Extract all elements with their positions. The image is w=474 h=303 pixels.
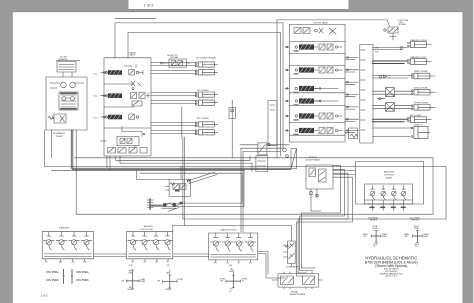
svg-text:SWING: SWING	[363, 234, 369, 236]
svg-text:TILT: TILT	[237, 263, 240, 265]
svg-text:T1out: T1out	[93, 73, 98, 76]
svg-text:LIFT: LIFT	[166, 273, 169, 275]
svg-text:2 of 2: 2 of 2	[41, 293, 49, 297]
svg-text:SELECTOR VALVE: SELECTOR VALVE	[290, 293, 306, 296]
svg-text:T1out: T1out	[93, 117, 98, 120]
svg-text:CONTROL VALVE: CONTROL VALVE	[313, 22, 329, 25]
svg-text:DOWN: DOWN	[373, 228, 378, 230]
svg-text:LOWER: LOWER	[165, 289, 172, 291]
svg-text:LOADER JOYSTICK: LOADER JOYSTICK	[220, 229, 237, 232]
svg-text:BKT: BKT	[129, 287, 132, 289]
svg-text:SWING: SWING	[404, 234, 410, 236]
svg-text:LIFT: LIFT	[167, 262, 170, 264]
svg-text:(Sheet 2 of 2): (Sheet 2 of 2)	[385, 275, 397, 278]
svg-text:JOYSTICK: JOYSTICK	[384, 175, 395, 177]
svg-text:UP: UP	[374, 246, 376, 248]
svg-text:PUMP: PUMP	[56, 136, 63, 138]
svg-text:BKT CYLINDER: BKT CYLINDER	[410, 115, 422, 117]
svg-text:TNK: TNK	[45, 262, 48, 264]
svg-text:BKT: BKT	[364, 236, 367, 238]
svg-text:BKT: BKT	[129, 270, 132, 272]
svg-text:(C8): (C8)	[167, 265, 171, 267]
svg-text:STAB/DRIVE: STAB/DRIVE	[59, 226, 70, 229]
svg-text:BKT CYLINDER: BKT CYLINDER	[197, 90, 209, 92]
svg-text:DOWN: DOWN	[229, 271, 235, 273]
svg-text:BOOM: BOOM	[414, 226, 419, 228]
svg-text:BOOM: BOOM	[220, 279, 226, 281]
svg-text:LOCKOUT VALVE: LOCKOUT VALVE	[305, 159, 320, 162]
svg-text:BOOM: BOOM	[242, 279, 248, 281]
svg-text:SWING CYL: SWING CYL	[414, 124, 423, 126]
svg-text:DIPPER CYLINDER: DIPPER CYLINDER	[414, 103, 429, 105]
svg-text:DRV PWRb: DRV PWRb	[77, 280, 90, 282]
svg-text:DUMP VALVE: DUMP VALVE	[287, 265, 299, 268]
svg-text:LIFT: LIFT	[144, 262, 147, 264]
svg-text:BOOM: BOOM	[373, 244, 378, 246]
svg-text:BKT: BKT	[156, 262, 159, 264]
svg-text:LIFT: LIFT	[214, 263, 217, 265]
svg-text:SWING CYLINDER: SWING CYLINDER	[414, 71, 428, 73]
svg-text:BOOM CYLINDER: BOOM CYLINDER	[414, 87, 428, 89]
svg-text:B/L CONTROL: B/L CONTROL	[368, 218, 378, 220]
svg-text:BKT: BKT	[405, 236, 408, 238]
svg-text:BACKHOE: BACKHOE	[144, 225, 154, 228]
svg-text:(4X2): (4X2)	[399, 22, 403, 24]
svg-text:DUMP: DUMP	[382, 236, 386, 238]
svg-text:4X2 (8A): 4X2 (8A)	[291, 290, 298, 293]
svg-text:(C8): (C8)	[130, 265, 134, 267]
svg-text:BACKHOE: BACKHOE	[384, 171, 395, 174]
svg-text:TILT: TILT	[226, 263, 229, 265]
svg-text:HYDRAULIC: HYDRAULIC	[53, 132, 66, 135]
svg-text:DUMP: DUMP	[128, 289, 133, 291]
svg-text:4WD: 4WD	[72, 262, 75, 264]
svg-text:RIGHT: RIGHT	[386, 178, 393, 180]
svg-text:OFF: OFF	[157, 281, 160, 283]
svg-text:UP: UP	[230, 291, 232, 293]
svg-text:DRV PWRb: DRV PWRb	[47, 280, 60, 282]
svg-text:DRV PWRa: DRV PWRa	[47, 272, 60, 274]
svg-text:(C8): (C8)	[229, 265, 233, 267]
svg-text:JOYSTICK LEFT: JOYSTICK LEFT	[140, 229, 155, 231]
svg-text:BOOM: BOOM	[414, 244, 419, 246]
svg-text:BOOM: BOOM	[373, 226, 378, 228]
svg-text:OFF: OFF	[121, 281, 124, 283]
svg-text:CURL: CURL	[128, 273, 132, 275]
svg-text:STBL: STBL	[375, 47, 379, 49]
svg-text:1 of 2: 1 of 2	[144, 3, 155, 8]
svg-text:SWING: SWING	[423, 234, 429, 236]
svg-text:DOWN: DOWN	[414, 228, 419, 230]
svg-text:OUT: OUT	[220, 281, 223, 283]
svg-text:DUMP: DUMP	[141, 281, 146, 283]
svg-text:STBL: STBL	[375, 52, 379, 54]
svg-text:BKT CYLINDER: BKT CYLINDER	[197, 118, 209, 120]
svg-text:DRV PWRa: DRV PWRa	[77, 272, 90, 274]
svg-text:SWING: SWING	[382, 234, 388, 236]
svg-text:DUMP: DUMP	[423, 236, 427, 238]
svg-text:VALVE: VALVE	[130, 54, 136, 57]
svg-text:LIFT: LIFT	[230, 269, 233, 271]
svg-text:BKT: BKT	[132, 262, 135, 264]
svg-text:4X2 CONTROL: 4X2 CONTROL	[410, 218, 421, 220]
svg-text:LIFT: LIFT	[230, 289, 233, 291]
svg-text:T1out: T1out	[93, 95, 98, 98]
svg-text:LIFT: LIFT	[249, 263, 252, 265]
svg-text:UP: UP	[415, 246, 417, 248]
svg-text:(Shown With Options): (Shown With Options)	[375, 264, 407, 268]
svg-text:RESERVOIR: RESERVOIR	[59, 59, 69, 61]
